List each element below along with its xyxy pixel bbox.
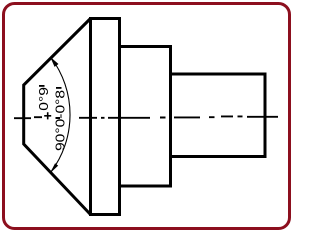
big block [91,19,120,215]
left tolerance plus sign [44,112,51,119]
svg-text:0°9: 0°9 [36,87,50,111]
medium block [120,47,171,187]
arrowhead top [51,58,58,67]
svg-text:90°0-0°8: 90°0-0°8 [53,90,67,151]
shaft [171,74,266,157]
cone frustum outline [24,19,91,215]
dimension arc [51,58,70,172]
centerline (dash-dot axis) [14,116,278,118]
right column bar [56,87,62,89]
left tolerance column bar [39,85,45,87]
arrowhead bottom [51,164,58,172]
